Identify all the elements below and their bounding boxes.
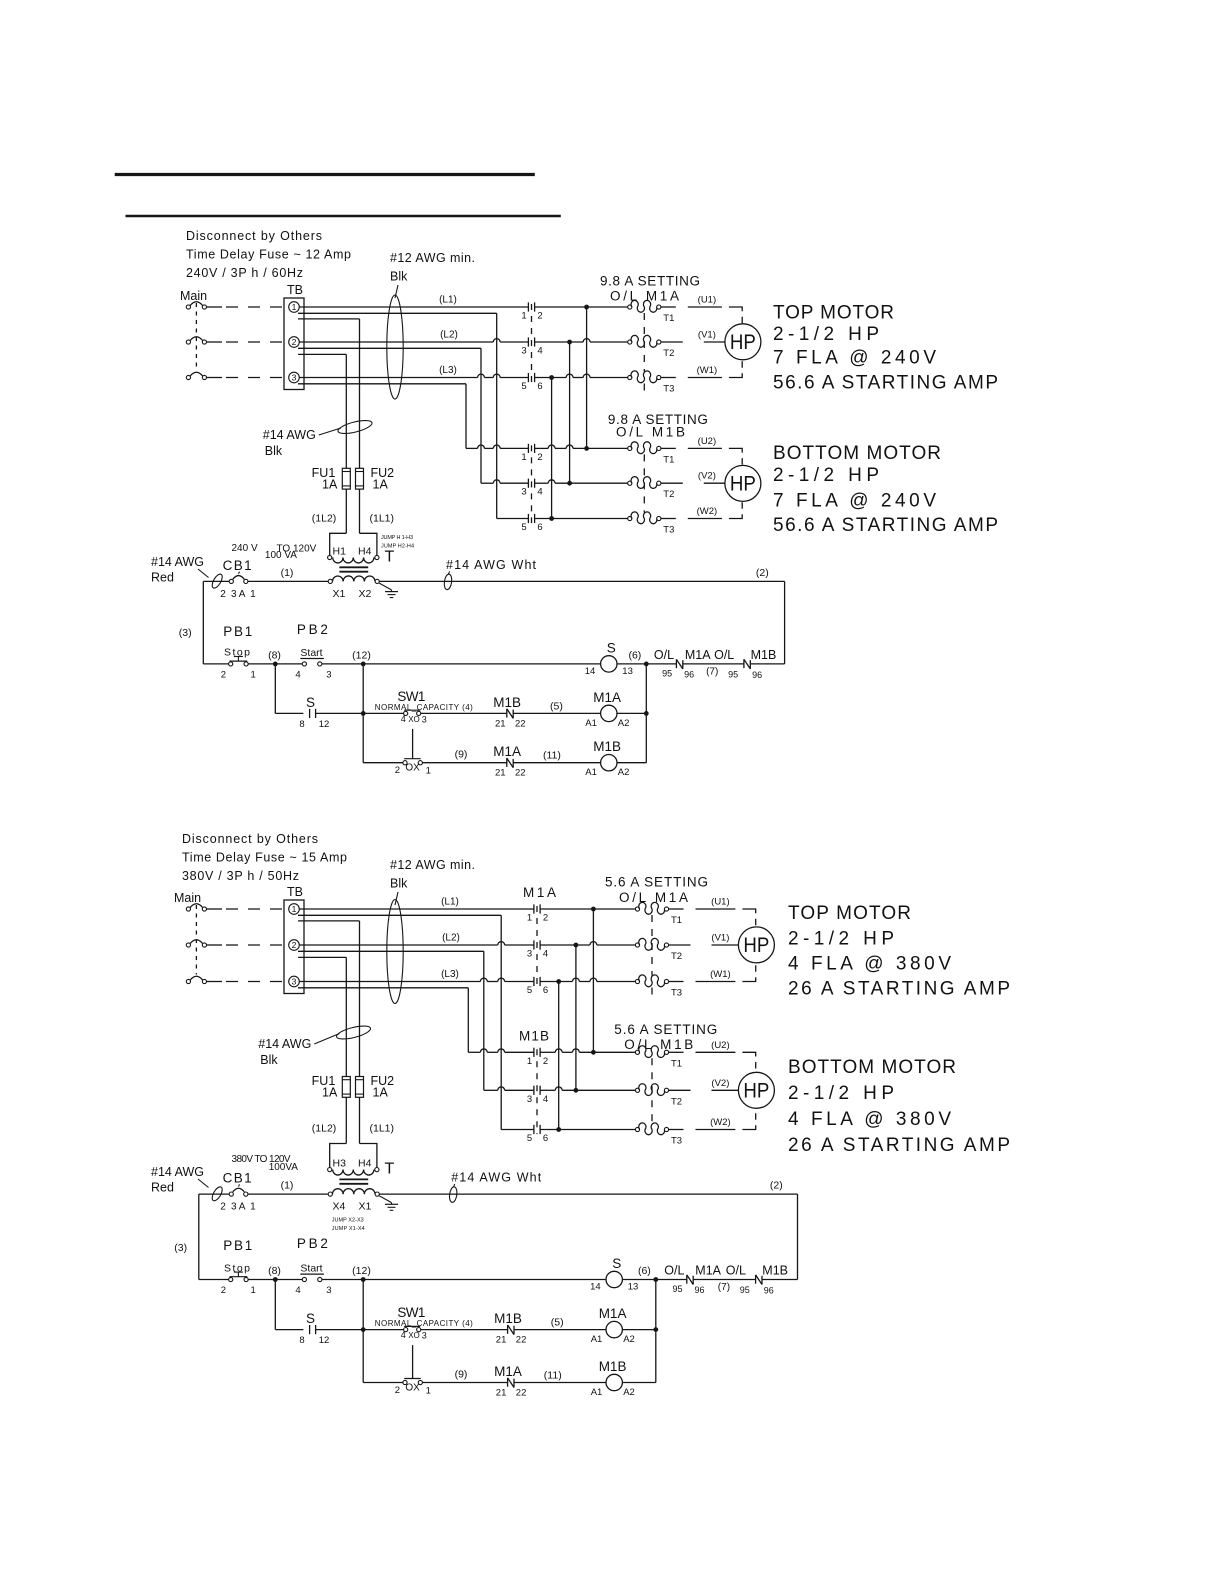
svg-text:X1: X1 [333, 588, 346, 600]
svg-text:JUMP H2-H4: JUMP H2-H4 [381, 544, 414, 550]
wire bus-L1 [592, 909, 594, 1052]
fuse FU2 [356, 1074, 395, 1100]
svg-text:T3: T3 [671, 1136, 682, 1147]
svg-text:1A: 1A [322, 1086, 338, 1100]
disconnect switch Main [180, 289, 207, 380]
wire L2-branch [298, 951, 484, 1090]
svg-text:Blk: Blk [260, 1053, 278, 1067]
svg-text:7 FLA @ 240V: 7 FLA @ 240V [773, 348, 936, 369]
svg-text:5.6 A SETTING: 5.6 A SETTING [614, 1022, 717, 1037]
svg-text:TB: TB [287, 283, 303, 297]
contactor M1A contacts [521, 302, 542, 392]
wire M1B-row3 [501, 1129, 534, 1131]
note setting M1A [605, 875, 708, 906]
svg-text:T1: T1 [671, 1058, 682, 1069]
svg-text:M1B: M1B [494, 1311, 522, 1326]
contactor M1B contacts [521, 444, 542, 533]
svg-text:M1A: M1A [695, 1264, 721, 1278]
svg-text:2: 2 [543, 913, 548, 924]
wire L2 [299, 330, 528, 343]
note setting M1B [608, 412, 708, 440]
svg-text:(L1): (L1) [439, 295, 457, 306]
svg-text:(W1): (W1) [697, 365, 718, 376]
svg-text:(9): (9) [455, 749, 468, 761]
svg-text:M1B: M1B [493, 695, 521, 710]
svg-text:100 VA: 100 VA [265, 550, 297, 561]
contactor coil M1B [585, 739, 646, 778]
svg-text:#14 AWG: #14 AWG [151, 555, 204, 569]
svg-text:(2): (2) [756, 567, 769, 579]
svg-text:JUMP X1-X4: JUMP X1-X4 [332, 1226, 365, 1232]
wire [275, 1280, 303, 1330]
svg-text:2-1/2 HP: 2-1/2 HP [773, 324, 879, 345]
svg-text:H1: H1 [333, 546, 347, 558]
svg-text:(9): (9) [455, 1369, 468, 1381]
wire [207, 377, 284, 379]
svg-text:A1: A1 [591, 1387, 603, 1398]
svg-text:4: 4 [537, 487, 542, 498]
svg-text:5.6 A SETTING: 5.6 A SETTING [605, 875, 708, 890]
motor HP bottom [725, 465, 761, 501]
wire L2-branch [298, 348, 481, 483]
svg-text:4: 4 [401, 1330, 406, 1340]
svg-text:2-1/2 HP: 2-1/2 HP [773, 465, 879, 486]
wire rail-right [797, 1194, 799, 1279]
svg-text:A2: A2 [623, 1334, 635, 1345]
svg-text:S: S [612, 1256, 621, 1271]
contactor M1A contacts [523, 885, 556, 996]
auxiliary contact M1B NC [493, 695, 600, 730]
wire M1B-row2 [481, 480, 528, 483]
pushbutton PB1 Stop [199, 1238, 256, 1296]
svg-text:2: 2 [292, 337, 297, 347]
svg-text:X4: X4 [333, 1201, 346, 1213]
wire 1L1-label [360, 1097, 395, 1143]
svg-text:(1): (1) [281, 567, 294, 579]
svg-text:T2: T2 [663, 489, 674, 500]
svg-text:5: 5 [521, 522, 526, 533]
wire L3-branch [298, 384, 466, 449]
svg-text:Stop: Stop [224, 1262, 250, 1274]
svg-text:Start: Start [300, 1263, 322, 1275]
svg-text:SW1: SW1 [397, 1305, 425, 1320]
svg-text:A2: A2 [618, 767, 630, 778]
wire M1B-row2 [484, 1087, 534, 1090]
svg-text:(1L2): (1L2) [312, 1123, 337, 1135]
wire ctrl-X1 [248, 567, 328, 582]
svg-text:4: 4 [543, 949, 548, 960]
svg-text:Disconnect by Others: Disconnect by Others [182, 832, 318, 846]
svg-text:3 A: 3 A [231, 1202, 246, 1213]
svg-text:7 FLA @ 240V: 7 FLA @ 240V [773, 491, 936, 512]
svg-text:M1A: M1A [494, 1364, 522, 1379]
wire rail-left [179, 581, 204, 664]
transformer T [328, 533, 414, 600]
svg-text:T1: T1 [663, 454, 674, 465]
svg-text:T: T [385, 1161, 395, 1178]
svg-text:CB1: CB1 [223, 558, 252, 573]
wire M1B-row1 [466, 445, 528, 448]
svg-text:56.6 A STARTING AMP: 56.6 A STARTING AMP [773, 515, 998, 536]
svg-text:M1A: M1A [599, 1306, 627, 1321]
wire L1 [299, 295, 528, 308]
svg-text:H4: H4 [358, 1158, 372, 1170]
svg-text:SW1: SW1 [397, 689, 425, 704]
svg-text:1A: 1A [322, 477, 338, 491]
svg-text:2: 2 [221, 669, 226, 680]
node L2-bus [540, 942, 635, 948]
svg-text:(L1): (L1) [441, 897, 459, 908]
svg-text:(1L2): (1L2) [312, 513, 337, 525]
svg-text:Blk: Blk [390, 877, 408, 891]
svg-text:1: 1 [527, 913, 532, 924]
svg-text:(W2): (W2) [697, 506, 718, 517]
fuse FU1 [312, 466, 351, 492]
wire 1L1-label [360, 489, 395, 533]
overload aux contact M1A [646, 648, 711, 680]
node coil-junction [653, 1280, 658, 1383]
wire [207, 981, 284, 983]
transformer T [328, 1144, 395, 1233]
svg-text:BOTTOM MOTOR: BOTTOM MOTOR [773, 443, 941, 464]
svg-text:21: 21 [496, 1335, 507, 1346]
wire L2 [299, 933, 534, 946]
wire 1L2-label [312, 1097, 347, 1143]
svg-text:A1: A1 [585, 767, 597, 778]
svg-text:96: 96 [764, 1286, 774, 1296]
wire L1-branch [298, 915, 501, 1129]
svg-text:(W1): (W1) [710, 969, 731, 980]
svg-text:3: 3 [292, 976, 297, 986]
svg-text:1: 1 [521, 452, 526, 463]
svg-text:2: 2 [537, 452, 542, 463]
svg-text:96: 96 [752, 670, 762, 680]
svg-text:1: 1 [250, 1202, 256, 1213]
svg-text:T2: T2 [671, 1096, 682, 1107]
svg-text:M1B: M1B [762, 1264, 788, 1278]
svg-text:22: 22 [515, 718, 526, 729]
svg-text:2: 2 [395, 1385, 400, 1396]
svg-text:(12): (12) [352, 1265, 371, 1277]
wire bus-L1 [586, 307, 588, 448]
svg-text:#14 AWG Wht: #14 AWG Wht [446, 558, 537, 572]
svg-text:(V2): (V2) [711, 1078, 729, 1089]
svg-text:A2: A2 [618, 718, 630, 729]
svg-text:22: 22 [516, 1335, 527, 1346]
svg-text:1: 1 [426, 766, 431, 777]
svg-text:Disconnect by Others: Disconnect by Others [186, 229, 322, 243]
node M1B-row1-bus [535, 445, 628, 451]
pushbutton PB1 Stop [203, 624, 255, 680]
node 12 [352, 1265, 371, 1282]
relay coil S [590, 1256, 638, 1293]
svg-text:8: 8 [299, 719, 304, 730]
node L1-bus [540, 907, 635, 912]
svg-text:(1): (1) [281, 1180, 294, 1192]
node L1-bus [535, 305, 628, 310]
auxiliary contact M1A NC [493, 744, 600, 779]
svg-text:M1A: M1A [685, 648, 711, 662]
svg-text:Main: Main [180, 289, 207, 303]
svg-text:HP: HP [743, 1079, 769, 1102]
ground [379, 583, 398, 598]
svg-text:(1L1): (1L1) [370, 513, 395, 525]
svg-text:(11): (11) [543, 750, 561, 762]
overload O/L M1A [628, 300, 675, 394]
node M1B-row3-bus [540, 1127, 635, 1132]
svg-text:1A: 1A [373, 477, 389, 491]
wire [322, 1279, 606, 1281]
motor HP top [738, 927, 774, 963]
wire M1B-row1 [468, 1049, 534, 1052]
svg-text:H4: H4 [358, 546, 372, 558]
svg-text:22: 22 [516, 1388, 527, 1399]
overload O/L M1A [635, 902, 682, 998]
svg-text:240 V: 240 V [232, 543, 258, 554]
svg-text:(L3): (L3) [441, 969, 459, 980]
fuse FU2 [356, 466, 395, 492]
note 14AWG-wht [449, 1171, 542, 1203]
ground [379, 1196, 398, 1211]
svg-text:#14 AWG: #14 AWG [151, 1165, 204, 1179]
svg-text:TOP MOTOR: TOP MOTOR [788, 903, 911, 924]
node M1B-row2-bus [535, 480, 628, 486]
svg-text:NORMAL_CAPACITY (4): NORMAL_CAPACITY (4) [375, 703, 473, 712]
svg-text:14: 14 [590, 1282, 601, 1293]
svg-text:4: 4 [401, 714, 406, 724]
svg-text:OX: OX [405, 1383, 420, 1394]
svg-text:#14 AWG Wht: #14 AWG Wht [451, 1171, 542, 1185]
wire [363, 762, 403, 764]
svg-text:S: S [306, 695, 315, 710]
svg-text:96: 96 [684, 669, 694, 679]
svg-text:4: 4 [543, 1094, 548, 1105]
svg-text:3: 3 [527, 949, 532, 960]
fuse FU1 [312, 1074, 351, 1100]
svg-text:3: 3 [326, 669, 331, 680]
svg-text:21: 21 [495, 768, 506, 779]
svg-text:HP: HP [743, 934, 769, 957]
wire L1 [299, 897, 534, 910]
svg-text:JUMP X2-X3: JUMP X2-X3 [332, 1218, 364, 1224]
svg-text:2: 2 [220, 1202, 226, 1213]
svg-text:(5): (5) [551, 1317, 564, 1329]
svg-text:PB1: PB1 [223, 624, 252, 639]
terminal block TB [284, 283, 304, 390]
wire bus-L2 [575, 945, 577, 1090]
wire 1L2-label [312, 489, 347, 533]
svg-text:21: 21 [496, 1388, 507, 1399]
svg-text:(L2): (L2) [440, 330, 458, 341]
svg-text:(U2): (U2) [711, 1040, 729, 1051]
relay coil S [585, 640, 633, 677]
wire M1B-row3 [497, 518, 529, 520]
wire [207, 306, 284, 308]
svg-text:(V1): (V1) [711, 933, 729, 944]
wire motor-leads-1 [661, 295, 742, 378]
overload aux contact M1B [683, 648, 785, 680]
svg-text:M1A: M1A [593, 690, 621, 705]
wire [248, 663, 302, 665]
svg-text:4: 4 [537, 346, 542, 357]
svg-text:X1: X1 [359, 1201, 372, 1213]
note 14AWG-wht [443, 558, 536, 590]
svg-text:3: 3 [422, 714, 427, 724]
svg-text:#14 AWG: #14 AWG [258, 1037, 311, 1051]
wire [248, 1279, 302, 1281]
wire rail-right [784, 581, 786, 664]
svg-text:(V1): (V1) [698, 330, 716, 341]
node M1B-row1-bus [540, 1049, 635, 1055]
svg-text:13: 13 [628, 1282, 639, 1293]
svg-text:T1: T1 [671, 915, 682, 926]
disconnect switch Main [174, 891, 206, 984]
svg-text:TOP MOTOR: TOP MOTOR [773, 303, 894, 324]
svg-text:#12 AWG min.: #12 AWG min. [390, 858, 475, 872]
svg-text:(3): (3) [174, 1242, 187, 1254]
svg-text:3: 3 [521, 487, 526, 498]
svg-text:HP: HP [730, 331, 756, 354]
note top motor [773, 303, 998, 394]
svg-text:56.6 A STARTING AMP: 56.6 A STARTING AMP [773, 373, 998, 394]
svg-text:2: 2 [537, 311, 542, 322]
svg-text:1: 1 [292, 904, 297, 914]
svg-text:(12): (12) [352, 649, 371, 661]
svg-text:(11): (11) [544, 1370, 562, 1382]
svg-text:26 A STARTING AMP: 26 A STARTING AMP [788, 1135, 1010, 1156]
note top motor [788, 903, 1010, 1000]
svg-text:T1: T1 [663, 313, 674, 324]
svg-text:M1B: M1B [599, 1359, 627, 1374]
svg-text:1: 1 [250, 589, 256, 600]
svg-text:Main: Main [174, 891, 201, 905]
svg-text:Time Delay Fuse ~ 15 Amp: Time Delay Fuse ~ 15 Amp [182, 851, 347, 865]
wire [362, 664, 364, 763]
svg-text:H3: H3 [333, 1158, 347, 1170]
svg-text:12: 12 [319, 1335, 330, 1346]
note 14AWG-red [151, 1165, 224, 1202]
svg-text:A1: A1 [591, 1334, 603, 1345]
svg-text:3: 3 [422, 1331, 427, 1341]
overload O/L M1B [635, 1046, 682, 1147]
svg-text:HP: HP [730, 472, 756, 495]
svg-text:380V / 3P h / 50Hz: 380V / 3P h / 50Hz [182, 869, 299, 883]
svg-text:T3: T3 [663, 525, 674, 536]
svg-text:240V / 3P h / 60Hz: 240V / 3P h / 60Hz [186, 266, 303, 280]
svg-text:4 FLA @ 380V: 4 FLA @ 380V [788, 954, 951, 975]
wire [362, 1280, 364, 1383]
svg-text:95: 95 [740, 1285, 750, 1295]
note 14AWG-blk [258, 1023, 371, 1067]
overload aux contact M1A [656, 1264, 722, 1296]
svg-text:(8): (8) [268, 649, 281, 661]
svg-text:NORMAL_CAPACITY (4): NORMAL_CAPACITY (4) [375, 1319, 473, 1328]
wire [207, 944, 284, 946]
svg-text:T3: T3 [671, 988, 682, 999]
svg-text:5: 5 [521, 381, 526, 392]
overload O/L M1B [628, 442, 675, 536]
wire [617, 663, 646, 665]
svg-text:6: 6 [537, 522, 542, 533]
svg-text:14: 14 [585, 666, 596, 677]
svg-text:2: 2 [395, 765, 400, 776]
node 12-row2 [361, 711, 366, 716]
svg-text:6: 6 [543, 985, 548, 996]
auxiliary contact M1A NC [494, 1364, 606, 1399]
node L2-bus [535, 339, 628, 345]
svg-text:O/L: O/L [664, 1264, 684, 1278]
svg-text:96: 96 [695, 1285, 705, 1295]
note setting M1B [614, 1022, 717, 1052]
wire [622, 1279, 655, 1281]
node 12 [352, 649, 371, 666]
svg-text:95: 95 [662, 668, 672, 678]
node M1B-row2-bus [540, 1087, 635, 1093]
svg-text:PB2: PB2 [297, 622, 328, 637]
svg-text:A1: A1 [585, 718, 597, 729]
wire motor-leads-1 [669, 897, 756, 982]
note bottom motor [788, 1057, 1010, 1156]
note 14AWG-red [151, 555, 224, 590]
auxiliary contact S [299, 1311, 363, 1346]
wire 1L2-feed [298, 354, 346, 468]
svg-text:1: 1 [426, 1386, 431, 1397]
svg-text:(L2): (L2) [442, 933, 460, 944]
svg-text:(6): (6) [638, 1265, 651, 1277]
svg-text:T3: T3 [663, 384, 674, 395]
node L3-bus [540, 978, 635, 984]
svg-text:(6): (6) [628, 649, 641, 661]
node 12-row2 [361, 1327, 366, 1332]
svg-text:PB2: PB2 [297, 1236, 328, 1251]
svg-text:CB1: CB1 [223, 1171, 252, 1186]
svg-text:4: 4 [295, 669, 300, 680]
wire motor-leads-2 [661, 436, 742, 519]
svg-text:(U1): (U1) [711, 897, 729, 908]
svg-text:4: 4 [295, 1285, 300, 1296]
pushbutton PB2 Start [295, 622, 331, 680]
svg-text:(W2): (W2) [710, 1117, 731, 1128]
svg-text:A2: A2 [623, 1387, 635, 1398]
svg-text:S: S [607, 640, 616, 655]
svg-text:O/L: O/L [726, 1264, 746, 1278]
svg-text:(5): (5) [550, 700, 563, 712]
svg-text:X2: X2 [359, 588, 372, 600]
note bottom motor [773, 443, 998, 536]
svg-text:(1L1): (1L1) [370, 1123, 395, 1135]
svg-text:#12 AWG min.: #12 AWG min. [390, 251, 475, 265]
switch OX [395, 729, 507, 777]
svg-text:1: 1 [251, 669, 256, 680]
svg-text:#14 AWG: #14 AWG [263, 428, 316, 442]
contactor M1B contacts [519, 1028, 549, 1144]
svg-text:Blk: Blk [390, 270, 408, 284]
wire [207, 908, 284, 910]
svg-text:8: 8 [299, 1335, 304, 1346]
svg-text:21: 21 [495, 718, 506, 729]
svg-text:2-1/2 HP: 2-1/2 HP [788, 1083, 894, 1104]
svg-text:Time Delay Fuse ~ 12 Amp: Time Delay Fuse ~ 12 Amp [186, 248, 351, 262]
svg-text:M1B: M1B [751, 648, 777, 662]
svg-text:JUMP H 1-H3: JUMP H 1-H3 [381, 535, 413, 541]
svg-text:1: 1 [292, 302, 297, 312]
node coil-junction [644, 664, 649, 763]
svg-text:95: 95 [673, 1284, 683, 1294]
svg-text:5: 5 [527, 1133, 532, 1144]
svg-text:XO: XO [408, 715, 420, 724]
wire L3 [299, 969, 534, 982]
circuit breaker CB1 [199, 1154, 299, 1213]
